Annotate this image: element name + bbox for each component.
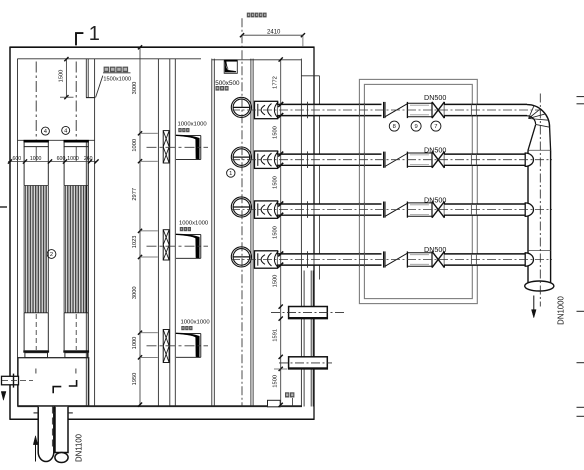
inlet pipe DN1100 a xyxy=(38,407,54,462)
pump hall right wall line d xyxy=(312,271,314,407)
butterfly valve row 2 xyxy=(432,152,444,168)
pipe spool row 3 xyxy=(407,202,432,204)
pipe centerline row 2 xyxy=(231,159,552,161)
pump hall right wall line a xyxy=(300,59,302,407)
pump station outer wall top xyxy=(10,46,314,48)
valve chamber inner wall xyxy=(364,84,472,298)
screen tag circle 4 (right) xyxy=(62,126,70,134)
svg-text:260: 260 xyxy=(84,156,93,162)
inlet pipe centerline dash xyxy=(51,407,53,450)
svg-text:1000: 1000 xyxy=(67,156,79,162)
header branch cap row 2 xyxy=(525,153,533,166)
tag circle 1 pump xyxy=(227,169,235,177)
dismantling joint row 4 xyxy=(383,251,385,267)
sump dashed corner mark b xyxy=(69,380,77,386)
leader line for opening label xyxy=(96,76,103,98)
svg-text:1950: 1950 xyxy=(132,373,138,386)
label inlet-hole (Chinese) for H1 xyxy=(178,128,181,132)
svg-text:600: 600 xyxy=(12,156,21,162)
tag circle 8 dismantling joint xyxy=(389,121,399,131)
bar screen 2 bottom flange xyxy=(63,350,89,352)
svg-text:DN500: DN500 xyxy=(424,93,446,102)
reserved pipe sleeve S2 xyxy=(289,357,328,369)
svg-text:8: 8 xyxy=(393,124,396,130)
wall ledge top right xyxy=(301,75,319,77)
suction channel wall line left xyxy=(211,59,213,406)
tag circle 9 spool xyxy=(411,121,421,131)
pipe centerline row 4 xyxy=(231,259,552,261)
discharge pipe DN500 row 4 (outlet run) xyxy=(444,254,525,265)
dimension 1500 (screen room) line xyxy=(65,59,67,97)
header branch cap row 3 xyxy=(525,203,533,216)
discharge pipe DN500 row 2 (suction side run) xyxy=(278,154,382,165)
svg-text:3000: 3000 xyxy=(132,286,138,299)
pump station outer wall bottom xyxy=(10,418,314,420)
svg-text:1000x1000: 1000x1000 xyxy=(181,319,211,325)
pump hall floor line xyxy=(18,405,303,407)
svg-text:1000: 1000 xyxy=(132,139,138,152)
bar screen 1 bottom flange xyxy=(23,350,49,352)
svg-text:DN1100: DN1100 xyxy=(74,433,83,462)
header centerline DN1000 xyxy=(539,94,541,307)
flow arrow up (inlet) xyxy=(35,443,37,462)
bar screen 2 lower guide xyxy=(63,313,65,351)
outlet header DN1000 right edge xyxy=(550,150,552,282)
bar screen 2 screen hatch xyxy=(64,185,88,187)
pipe centerline row 1 xyxy=(231,109,541,111)
penstock channel wall line mid xyxy=(169,59,171,406)
outlet header joint line mid xyxy=(528,250,551,252)
svg-text:1500: 1500 xyxy=(273,226,279,239)
dimension 2410 crane rail xyxy=(242,34,303,36)
svg-text:1: 1 xyxy=(229,171,232,177)
discharge pipe DN500 row 1 (suction side run) xyxy=(278,104,382,115)
butterfly valve row 1 xyxy=(432,102,444,118)
wall step line right xyxy=(319,76,321,280)
vertical dimension line mid channel xyxy=(139,47,141,404)
svg-text:1000: 1000 xyxy=(132,337,138,350)
sump dashed corner mark a xyxy=(53,387,61,394)
opening 1500x1000 cap line xyxy=(86,97,95,99)
svg-text:1500: 1500 xyxy=(273,375,279,388)
wall lines crossing pipes xyxy=(300,104,302,115)
svg-text:1500: 1500 xyxy=(58,70,64,83)
vertical dimension line pump rows xyxy=(280,60,282,407)
svg-text:1023: 1023 xyxy=(132,236,138,249)
svg-text:3000: 3000 xyxy=(132,82,138,95)
sleeve S1 centerline xyxy=(271,312,346,314)
dismantling joint row 2 xyxy=(383,152,385,168)
penstock gate G2 xyxy=(163,230,169,260)
svg-text:1000: 1000 xyxy=(30,156,42,162)
pump sump box xyxy=(18,358,89,406)
svg-text:2410: 2410 xyxy=(267,30,281,36)
penstock gate G1 xyxy=(163,131,169,163)
inlet pipe DN1100 b xyxy=(55,407,68,453)
tag circle 2 screen channel xyxy=(47,250,56,259)
pipe flange ticks at wall xyxy=(34,412,39,414)
bar screen 2 upper guide xyxy=(63,147,65,186)
screen bay centerline 2 xyxy=(75,62,77,141)
penstock gate G3 xyxy=(163,330,169,363)
svg-text:7: 7 xyxy=(434,124,437,130)
label inlet-hole (Chinese) for H2 xyxy=(180,227,183,231)
outlet header joint line top xyxy=(528,149,551,151)
bar screen 2 top seal beam xyxy=(64,140,89,143)
screen room right wall line b (with opening gap) xyxy=(87,59,89,98)
bar screen 1 head frame xyxy=(24,142,48,147)
bar screen 1 lower guide xyxy=(23,313,25,351)
svg-text:1000x1000: 1000x1000 xyxy=(179,220,209,226)
label drain (Chinese) bottom xyxy=(285,392,289,397)
pump station outer wall left xyxy=(9,47,11,420)
svg-text:1500: 1500 xyxy=(273,126,279,139)
header bottom cap ellipse xyxy=(525,281,554,291)
bar screen 1 screen hatch xyxy=(24,185,48,187)
section tick left edge xyxy=(0,206,7,208)
butterfly valve row 4 xyxy=(432,251,444,267)
svg-text:600: 600 xyxy=(57,156,66,162)
inner wall line top right part xyxy=(212,59,302,61)
svg-text:1591: 1591 xyxy=(273,329,279,342)
screen room right wall line a (with opening gap) xyxy=(85,59,87,98)
label inlet corridor (Chinese) xyxy=(104,67,110,73)
discharge pipe DN500 row 1 (outlet run) xyxy=(444,104,527,115)
svg-text:DN500: DN500 xyxy=(424,195,446,204)
pump unit P3 casing xyxy=(231,197,251,217)
bar screen 1 top seal beam xyxy=(24,140,49,143)
pump hall rail line b xyxy=(252,59,254,406)
sump pit 500x500 (plan square) xyxy=(224,60,237,73)
inner wall line left xyxy=(17,59,19,407)
valve chamber outer wall xyxy=(359,79,477,303)
discharge pipe DN500 row 3 (suction side run) xyxy=(278,204,382,215)
pipe spool row 1 xyxy=(407,102,432,104)
svg-text:1500x1000: 1500x1000 xyxy=(103,76,131,82)
header branch cap row 4 xyxy=(525,253,533,266)
label crane I-beam (Chinese) xyxy=(247,13,251,18)
bar screen 1 upper guide xyxy=(23,147,25,186)
pipe spool row 4 xyxy=(407,252,432,254)
pump unit P2 casing xyxy=(231,147,251,167)
90 deg mitred elbow row 1 xyxy=(527,105,550,128)
penstock centerline 1 xyxy=(147,146,209,148)
svg-text:1772: 1772 xyxy=(273,76,279,89)
svg-text:DN500: DN500 xyxy=(424,145,446,154)
svg-text:9: 9 xyxy=(414,124,417,130)
pipe centerline row 3 xyxy=(231,209,552,211)
label inlet-hole (Chinese) for H3 xyxy=(181,326,184,330)
drain stub pipe left xyxy=(2,376,19,385)
discharge pipe DN500 row 4 (suction side run) xyxy=(278,254,382,265)
penstock centerline 3 xyxy=(147,345,209,347)
dismantling joint row 3 xyxy=(383,202,385,218)
screen tag circle 4 (left) xyxy=(41,127,49,135)
svg-text:DN1000: DN1000 xyxy=(557,296,566,325)
penstock channel wall line right xyxy=(174,59,176,406)
outlet header DN1000 left edge xyxy=(527,150,529,282)
reducer cone to header xyxy=(528,125,536,151)
discharge pipe DN500 row 2 (outlet run) xyxy=(444,154,525,165)
flexible coupling row 1 xyxy=(255,101,278,118)
pump unit P1 casing xyxy=(231,97,251,117)
section mark 1 top xyxy=(76,33,83,45)
svg-text:1500: 1500 xyxy=(273,275,279,288)
sleeve S2 centerline xyxy=(279,362,332,364)
penstock centerline 2 xyxy=(147,245,209,247)
svg-text:1000x1000: 1000x1000 xyxy=(178,121,208,127)
svg-text:DN500: DN500 xyxy=(424,245,446,254)
pump hall right wall line c xyxy=(310,271,312,407)
pump unit P4 casing xyxy=(231,247,251,267)
stub centerline dash xyxy=(2,380,33,382)
flexible coupling row 2 xyxy=(255,151,278,168)
flexible coupling row 3 xyxy=(255,201,278,218)
screen room floor line xyxy=(18,139,95,141)
inlet opening symbol H2 (1000x1000) xyxy=(176,234,201,236)
screen bay centerline 1 xyxy=(35,62,37,141)
stub flow arrow xyxy=(1,392,6,401)
butterfly valve row 3 xyxy=(432,202,444,218)
bar screen 2 sump centerline dash xyxy=(75,369,77,374)
pump station outer wall right xyxy=(313,47,315,420)
screen room right wall line c xyxy=(94,59,96,406)
svg-text:500x500: 500x500 xyxy=(215,80,240,87)
outfall flow arrow down xyxy=(533,296,535,312)
svg-text:1: 1 xyxy=(89,23,100,45)
svg-text:1500: 1500 xyxy=(273,176,279,189)
inlet opening symbol H3 (1000x1000) xyxy=(176,333,201,335)
horizontal dimension line screens xyxy=(8,161,97,163)
penstock channel wall line left xyxy=(157,59,159,406)
crane rail centerline xyxy=(241,18,243,406)
suction channel wall line right xyxy=(213,59,215,406)
dismantling joint row 1 xyxy=(383,102,385,118)
pump hall right wall line b xyxy=(303,271,305,407)
pipe spool row 2 xyxy=(407,152,432,154)
bar screen 2 head frame xyxy=(64,142,88,147)
svg-text:2: 2 xyxy=(50,252,53,258)
adjacent drawing ticks right edge xyxy=(577,96,584,98)
flexible coupling row 4 xyxy=(255,251,278,268)
reserved pipe sleeve S1 xyxy=(289,307,328,319)
tag circle 7 butterfly valve xyxy=(431,121,441,131)
label sump pit (Chinese) xyxy=(216,86,220,91)
discharge pipe DN500 row 3 (outlet run) xyxy=(444,204,525,215)
inner wall line top xyxy=(18,58,202,60)
floor sump pit 500x500 bottom xyxy=(268,400,281,407)
bar screen 1 sump centerline dash xyxy=(35,369,37,374)
pump hall rail line a xyxy=(250,59,252,406)
inlet opening symbol H1 (1000x1000) xyxy=(176,135,201,137)
svg-text:2977: 2977 xyxy=(132,188,138,201)
